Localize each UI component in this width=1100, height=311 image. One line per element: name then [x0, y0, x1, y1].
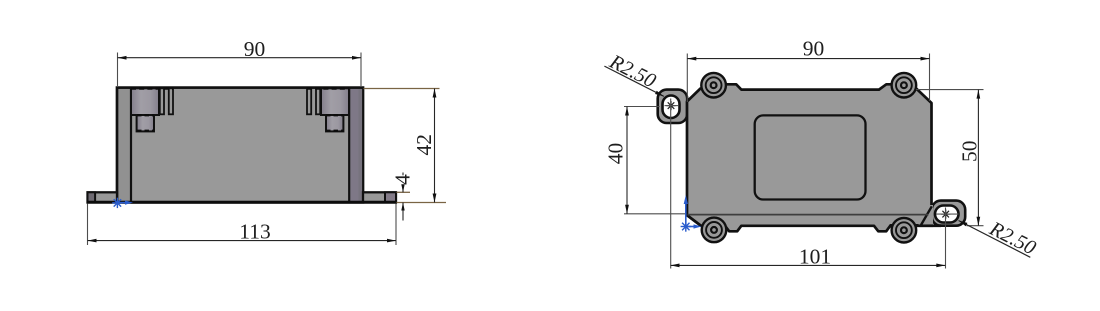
bottom-right ear-body junction fill — [919, 205, 934, 227]
lid recess rounded rectangle — [755, 115, 866, 199]
boss top-left — [701, 73, 726, 98]
svg-text:4: 4 — [391, 174, 415, 185]
top-right boss step — [326, 115, 343, 131]
right mounting foot — [363, 192, 396, 202]
left mounting foot — [88, 192, 118, 202]
hidden edge dashes top-right — [307, 87, 349, 90]
svg-text:42: 42 — [412, 134, 436, 156]
hidden edge dashes top-left — [131, 87, 173, 90]
left wall inner edge — [130, 88, 132, 201]
right foot end cap — [385, 192, 396, 202]
dim 101 extension lines — [670, 99, 672, 269]
left view: side elevation — [87, 37, 447, 245]
top-right boss (side view) — [321, 88, 349, 115]
svg-text:113: 113 — [239, 220, 270, 244]
R2.50 leader bottom-right — [959, 221, 1031, 258]
blue origin marker (left view) — [112, 202, 122, 204]
bottom heavy edge — [87, 201, 398, 204]
right wall outer darker strip — [359, 89, 363, 201]
svg-text:101: 101 — [799, 244, 831, 268]
top-left ear slot — [663, 96, 680, 119]
svg-text:50: 50 — [958, 141, 982, 163]
top-left edge strips — [160, 88, 164, 114]
dim 40 line — [626, 107, 628, 214]
top-left mounting ear — [658, 90, 688, 123]
top-left boss (side view) — [131, 88, 159, 115]
blue origin marker (top view) — [681, 226, 691, 228]
bottom-right ear slot — [935, 206, 959, 223]
body side outline — [117, 88, 363, 203]
left wall shade band — [119, 89, 131, 201]
dim 90 (top view) line — [687, 58, 929, 60]
svg-text:90: 90 — [244, 37, 266, 61]
dim 101 line — [671, 264, 946, 266]
boss bottom-right — [892, 218, 917, 243]
boss bottom-left — [702, 218, 727, 243]
right view: top view — [604, 37, 1040, 269]
boss top-right — [892, 73, 917, 98]
svg-text:90: 90 — [803, 37, 825, 61]
R2.50 leader top-left — [604, 66, 664, 96]
dim 42/4 brown extension bottom — [397, 202, 447, 204]
top-left slot asterisk — [666, 105, 675, 107]
right wall inner edge — [348, 88, 350, 201]
svg-text:40: 40 — [604, 143, 628, 165]
dim 4 line segments — [402, 173, 404, 176]
dim 90 (left view) line — [118, 57, 362, 59]
dim 90 (top view) extension lines — [686, 54, 688, 103]
bottom-right mounting ear — [932, 201, 965, 226]
lid step edge line across body — [688, 214, 929, 216]
dim 42 brown extension top — [364, 88, 440, 90]
top-left boss step — [137, 115, 154, 131]
dim 40 extension lines — [624, 106, 660, 108]
dim 90 (left view) extension lines — [117, 53, 119, 88]
body top-view outline — [687, 84, 932, 231]
bottom-left corner chamfer edge — [687, 215, 701, 226]
dim 4 brown extension — [397, 191, 411, 193]
dim 50 extension lines — [916, 89, 984, 91]
left foot end cap — [88, 192, 96, 202]
bottom-right slot asterisk — [941, 213, 950, 215]
bottom-right corner chamfer edge — [921, 206, 932, 225]
dim 42 line — [434, 89, 436, 203]
dim 113 line — [88, 240, 397, 242]
dim 113 extension lines — [87, 204, 89, 246]
top-right edge strips — [316, 88, 320, 114]
dim 50 line — [977, 90, 979, 226]
right wall shade band — [350, 89, 361, 201]
